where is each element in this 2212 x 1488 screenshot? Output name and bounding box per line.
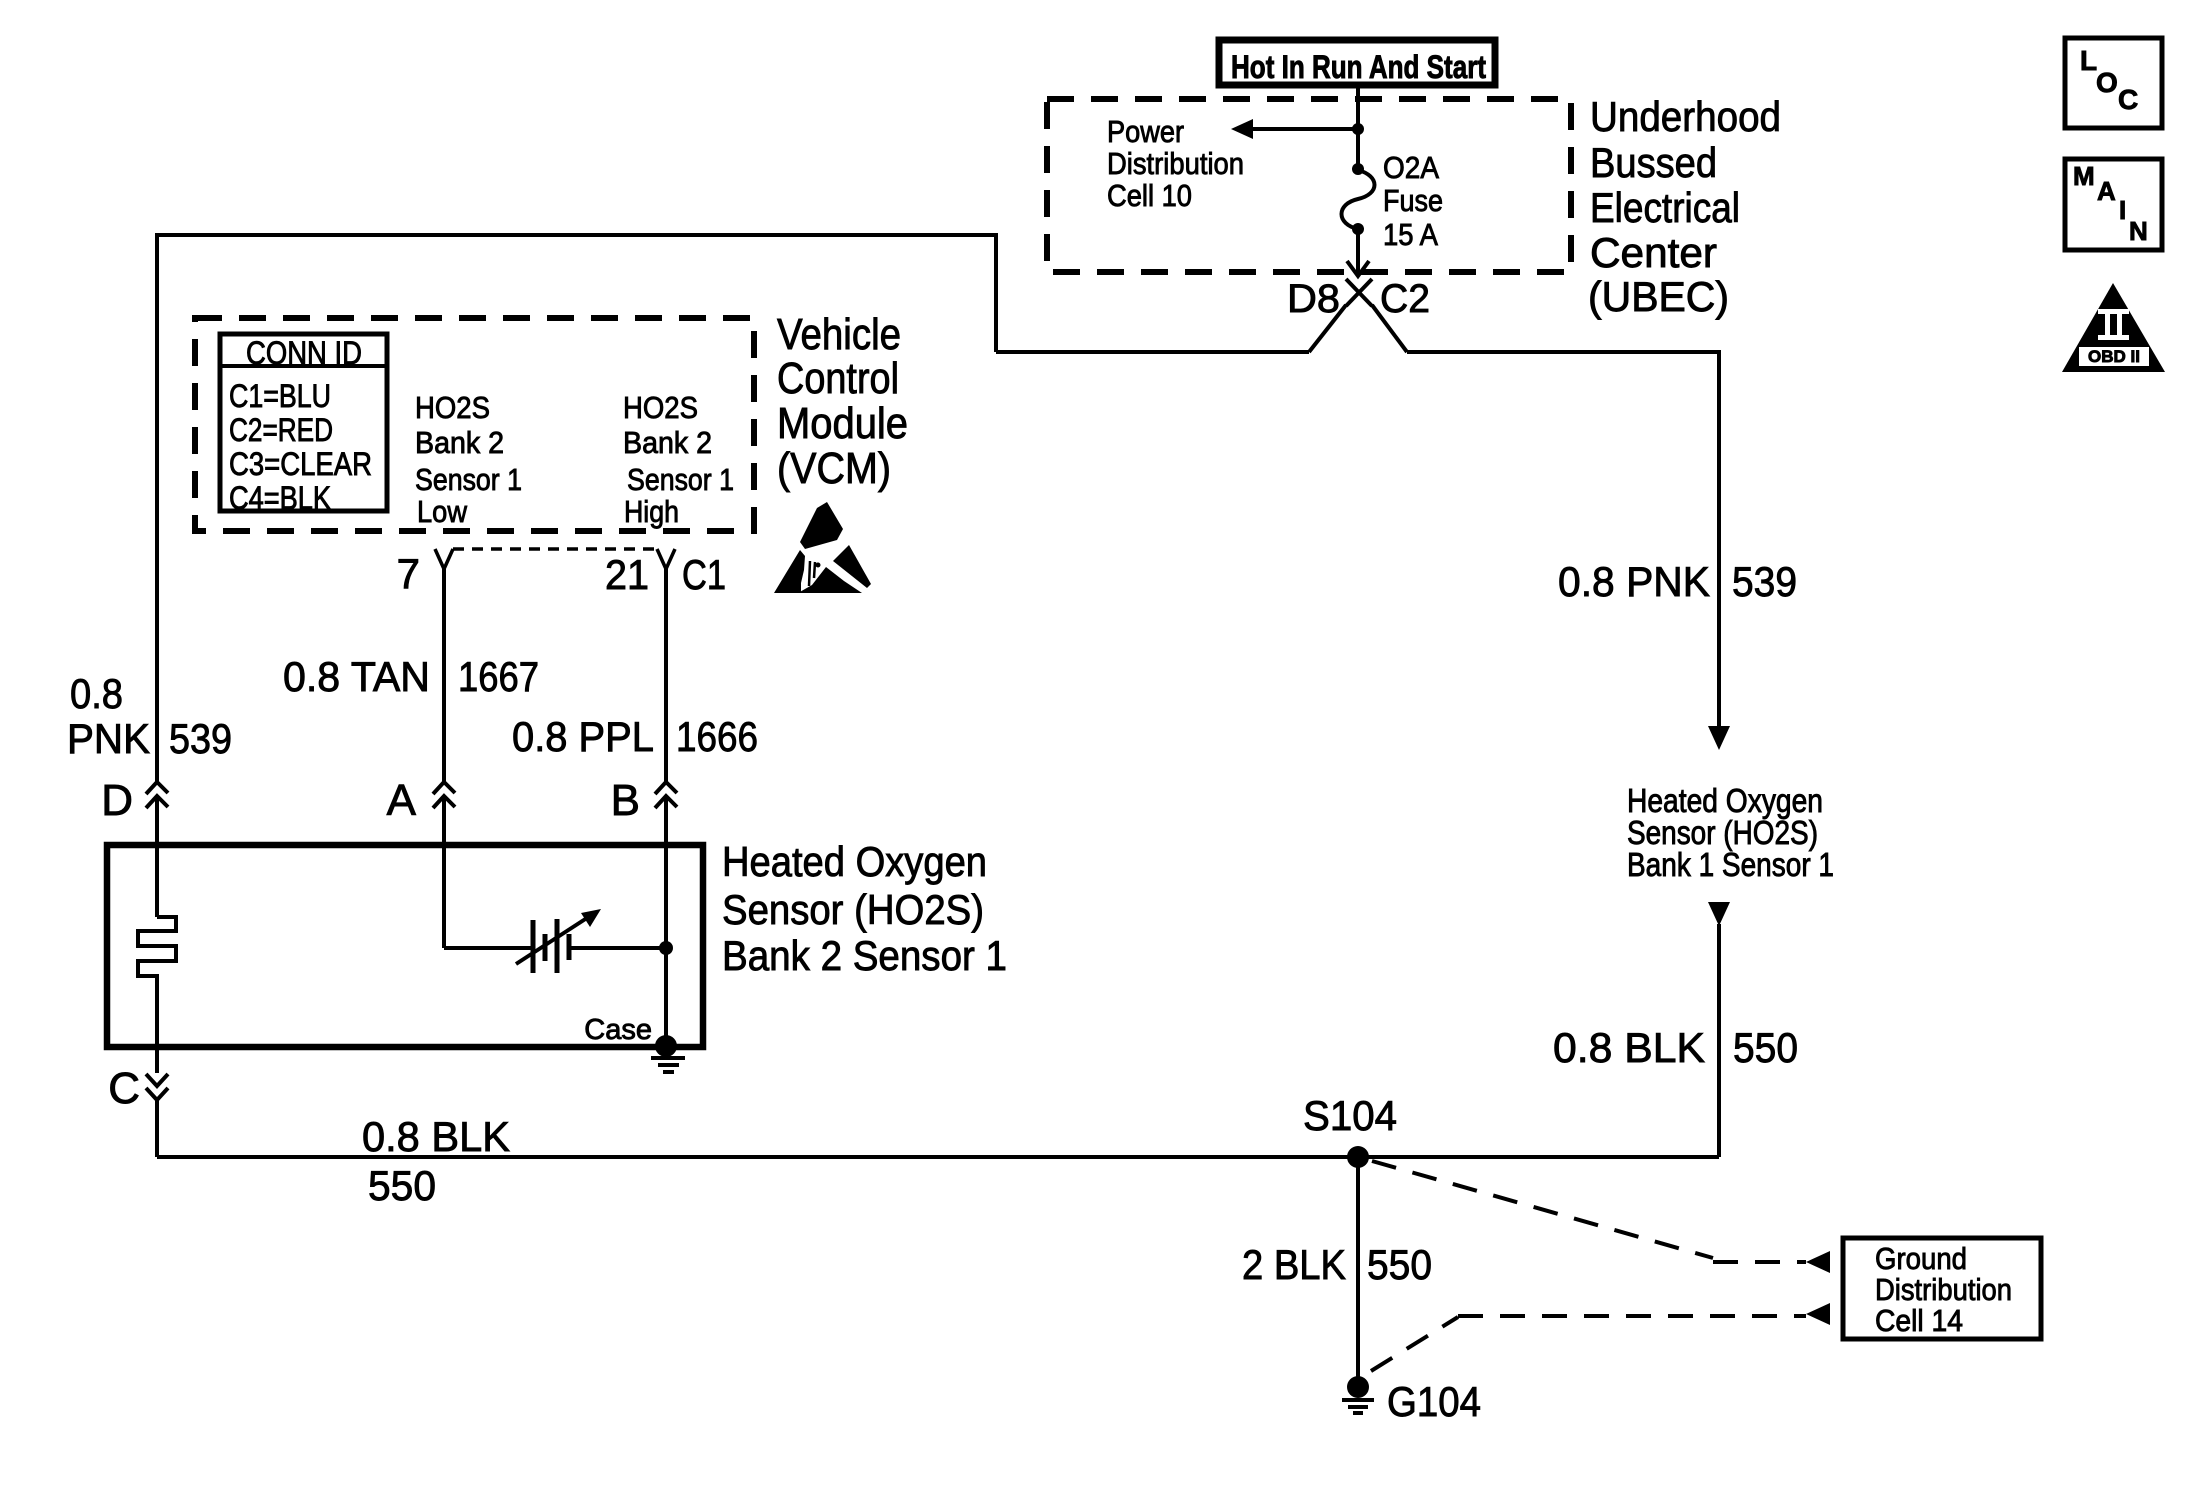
svg-text:Cell 10: Cell 10: [1107, 178, 1192, 213]
svg-text:550: 550: [1367, 1241, 1432, 1288]
svg-text:N: N: [2129, 216, 2148, 246]
svg-text:C2: C2: [1380, 277, 1430, 321]
svg-text:M: M: [2073, 161, 2095, 191]
svg-text:Sensor (HO2S): Sensor (HO2S): [722, 886, 984, 933]
svg-text:CONN ID: CONN ID: [246, 335, 362, 371]
svg-text:15 A: 15 A: [1383, 217, 1438, 252]
svg-text:C: C: [2118, 84, 2138, 115]
svg-text:1666: 1666: [676, 713, 758, 760]
svg-text:Bussed: Bussed: [1590, 139, 1717, 186]
svg-text:Distribution: Distribution: [1875, 1272, 2012, 1307]
svg-text:Power: Power: [1107, 114, 1184, 149]
svg-text:539: 539: [169, 715, 232, 762]
svg-text:0.8 BLK: 0.8 BLK: [1553, 1024, 1705, 1071]
svg-text:0.8 PPL: 0.8 PPL: [512, 713, 654, 760]
svg-text:Cell 14: Cell 14: [1875, 1303, 1963, 1338]
svg-text:S104: S104: [1303, 1092, 1397, 1139]
svg-text:O2A: O2A: [1383, 150, 1439, 185]
svg-text:0.8 BLK: 0.8 BLK: [362, 1113, 510, 1160]
svg-text:B: B: [611, 776, 640, 825]
svg-text:Bank 1 Sensor 1: Bank 1 Sensor 1: [1627, 846, 1834, 883]
svg-text:Case: Case: [584, 1014, 652, 1046]
svg-text:A: A: [2097, 176, 2116, 206]
svg-text:Sensor 1: Sensor 1: [415, 462, 522, 497]
svg-text:A: A: [387, 776, 417, 825]
svg-text:0.8: 0.8: [70, 670, 123, 717]
svg-text:21: 21: [605, 551, 649, 598]
svg-text:C4=BLK: C4=BLK: [229, 480, 331, 516]
svg-text:2 BLK: 2 BLK: [1242, 1241, 1346, 1288]
svg-text:HO2S: HO2S: [623, 390, 698, 425]
svg-text:Heated Oxygen: Heated Oxygen: [722, 838, 987, 885]
svg-text:Ground: Ground: [1875, 1241, 1967, 1276]
svg-text:C1: C1: [682, 551, 726, 598]
svg-text:539: 539: [1732, 558, 1797, 605]
svg-text:(VCM): (VCM): [777, 444, 891, 493]
svg-text:550: 550: [1733, 1024, 1798, 1071]
svg-text:PNK: PNK: [67, 715, 150, 762]
svg-text:Fuse: Fuse: [1383, 183, 1443, 218]
svg-text:0.8 PNK: 0.8 PNK: [1558, 558, 1710, 605]
svg-text:Underhood: Underhood: [1590, 93, 1781, 140]
svg-text:(UBEC): (UBEC): [1588, 273, 1729, 320]
svg-text:Center: Center: [1590, 229, 1717, 276]
svg-text:O: O: [2096, 67, 2118, 98]
svg-text:Distribution: Distribution: [1107, 146, 1244, 181]
svg-text:OBD II: OBD II: [2088, 347, 2140, 366]
svg-text:1667: 1667: [458, 653, 539, 700]
svg-text:C: C: [108, 1064, 140, 1113]
svg-text:Vehicle: Vehicle: [777, 310, 901, 359]
svg-text:Electrical: Electrical: [1590, 184, 1740, 231]
svg-text:High: High: [624, 494, 679, 529]
svg-text:C2=RED: C2=RED: [229, 412, 333, 448]
svg-text:550: 550: [368, 1162, 436, 1209]
svg-text:HO2S: HO2S: [415, 390, 490, 425]
svg-text:Hot In Run And Start: Hot In Run And Start: [1231, 49, 1486, 85]
svg-text:Low: Low: [417, 494, 468, 529]
svg-text:G104: G104: [1387, 1378, 1481, 1425]
svg-text:Sensor 1: Sensor 1: [627, 462, 734, 497]
svg-text:L: L: [2080, 45, 2097, 76]
svg-text:C3=CLEAR: C3=CLEAR: [229, 446, 372, 482]
svg-text:7: 7: [397, 550, 420, 597]
svg-text:0.8 TAN: 0.8 TAN: [283, 653, 430, 700]
svg-text:Bank 2 Sensor 1: Bank 2 Sensor 1: [722, 932, 1007, 979]
svg-text:I: I: [2119, 195, 2126, 225]
svg-text:D: D: [101, 776, 133, 825]
svg-text:Bank 2: Bank 2: [415, 425, 504, 460]
svg-text:C1=BLU: C1=BLU: [229, 378, 331, 414]
svg-text:Module: Module: [777, 399, 908, 448]
svg-text:Bank 2: Bank 2: [623, 425, 712, 460]
svg-text:D8: D8: [1287, 277, 1340, 321]
svg-text:Control: Control: [777, 354, 899, 403]
